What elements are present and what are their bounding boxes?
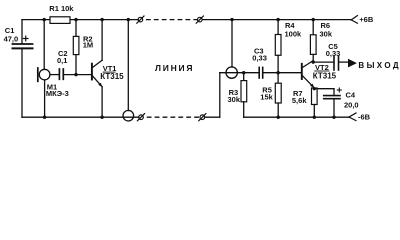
- capacitor C2: [58, 69, 60, 79]
- svg-text:0,1: 0,1: [57, 56, 67, 65]
- svg-text:КТ315: КТ315: [313, 71, 337, 80]
- polarity plus C4: [337, 89, 341, 91]
- node R5 bottom: [277, 116, 280, 119]
- microphone M1: [43, 20, 45, 70]
- connector X3 bottom left: [139, 115, 144, 120]
- node VT1 emitter bottom: [100, 116, 103, 119]
- wire bottom rail right unit: [244, 116, 349, 118]
- wire C5 to output arrow: [339, 61, 348, 63]
- node collector VT2: [312, 60, 315, 63]
- svg-text:КТ315: КТ315: [100, 72, 124, 81]
- wire top rail left unit: [22, 19, 138, 21]
- polarity plus C1: [23, 38, 28, 40]
- wire dashed line top: [147, 19, 198, 21]
- connector X4 bottom right: [200, 115, 205, 120]
- terminal arrow -6V: [349, 113, 356, 117]
- capacitor C1: [21, 20, 23, 44]
- wire line branch riser left: [127, 20, 129, 111]
- wire capsule branch right: [231, 20, 233, 68]
- node R7 bottom: [313, 116, 316, 119]
- node line riser top: [127, 18, 130, 21]
- wire collector node to C5: [313, 61, 333, 63]
- wire C3 to base VT2: [263, 72, 301, 74]
- capacitor C5: [333, 57, 335, 71]
- svg-text:15k: 15k: [260, 93, 273, 102]
- resistor R6: [312, 20, 314, 35]
- node VT1 collector top: [100, 18, 103, 21]
- svg-text:R6: R6: [321, 21, 331, 30]
- node capsule branch top: [230, 18, 233, 21]
- svg-text:100k: 100k: [285, 30, 303, 39]
- wire dashed line bottom: [147, 116, 199, 118]
- transistor VT2: [301, 64, 303, 79]
- svg-text:ЛИНИЯ: ЛИНИЯ: [155, 63, 194, 73]
- wire top rail right unit: [202, 19, 351, 21]
- node base VT1: [74, 73, 77, 76]
- svg-text:+6В: +6В: [359, 15, 374, 24]
- wire bottom rail left unit: [22, 116, 139, 118]
- svg-text:0,33: 0,33: [252, 54, 267, 63]
- svg-text:47,0: 47,0: [4, 35, 19, 44]
- node R6 top: [312, 18, 315, 21]
- svg-text:20,0: 20,0: [344, 101, 359, 110]
- svg-text:C4: C4: [346, 90, 356, 99]
- output arrow VYHOD: [348, 59, 357, 68]
- terminal arrow +6V: [351, 16, 357, 20]
- wire C2 to base VT1: [64, 74, 91, 76]
- wire mic to C2: [50, 74, 59, 76]
- node C4 bottom: [332, 116, 335, 119]
- resistor R5: [277, 73, 279, 84]
- resistor R7: [312, 88, 318, 105]
- resistor R2: [75, 20, 77, 37]
- svg-text:1M: 1M: [83, 41, 93, 50]
- connector X1 top left: [138, 17, 143, 22]
- wire signal line to C3: [220, 72, 259, 74]
- node emitter VT2: [313, 87, 316, 90]
- resistor R1: [50, 17, 70, 24]
- wire bottom line stub right: [205, 116, 220, 118]
- node mic bottom: [43, 116, 46, 119]
- svg-text:30k: 30k: [228, 95, 241, 104]
- svg-text:30k: 30k: [320, 30, 333, 39]
- svg-text:5,6k: 5,6k: [292, 96, 307, 105]
- transistor VT1: [91, 64, 93, 80]
- capacitor C3: [258, 67, 260, 78]
- svg-text:R4: R4: [285, 21, 295, 30]
- telephone capsule right: [226, 67, 237, 78]
- node R3 top: [242, 71, 245, 74]
- svg-text:0,33: 0,33: [326, 49, 341, 58]
- resistor R4: [277, 20, 279, 35]
- connector X2 top right: [198, 17, 203, 22]
- node base divider VT2: [276, 71, 279, 74]
- node mic top: [43, 18, 46, 21]
- node R2 top: [74, 18, 77, 21]
- resistor R3: [243, 73, 245, 81]
- telephone capsule left: [123, 110, 134, 121]
- capacitor C4: [333, 89, 335, 95]
- svg-text:R1 10k: R1 10k: [49, 4, 74, 13]
- wire emitter node to C4: [314, 88, 334, 90]
- node R4 top: [276, 18, 279, 21]
- wire riser to capsule right: [219, 73, 221, 118]
- svg-text:ВЫХОД: ВЫХОД: [358, 61, 400, 70]
- svg-text:МКЭ-3: МКЭ-3: [46, 89, 69, 98]
- svg-text:-6В: -6В: [358, 113, 371, 122]
